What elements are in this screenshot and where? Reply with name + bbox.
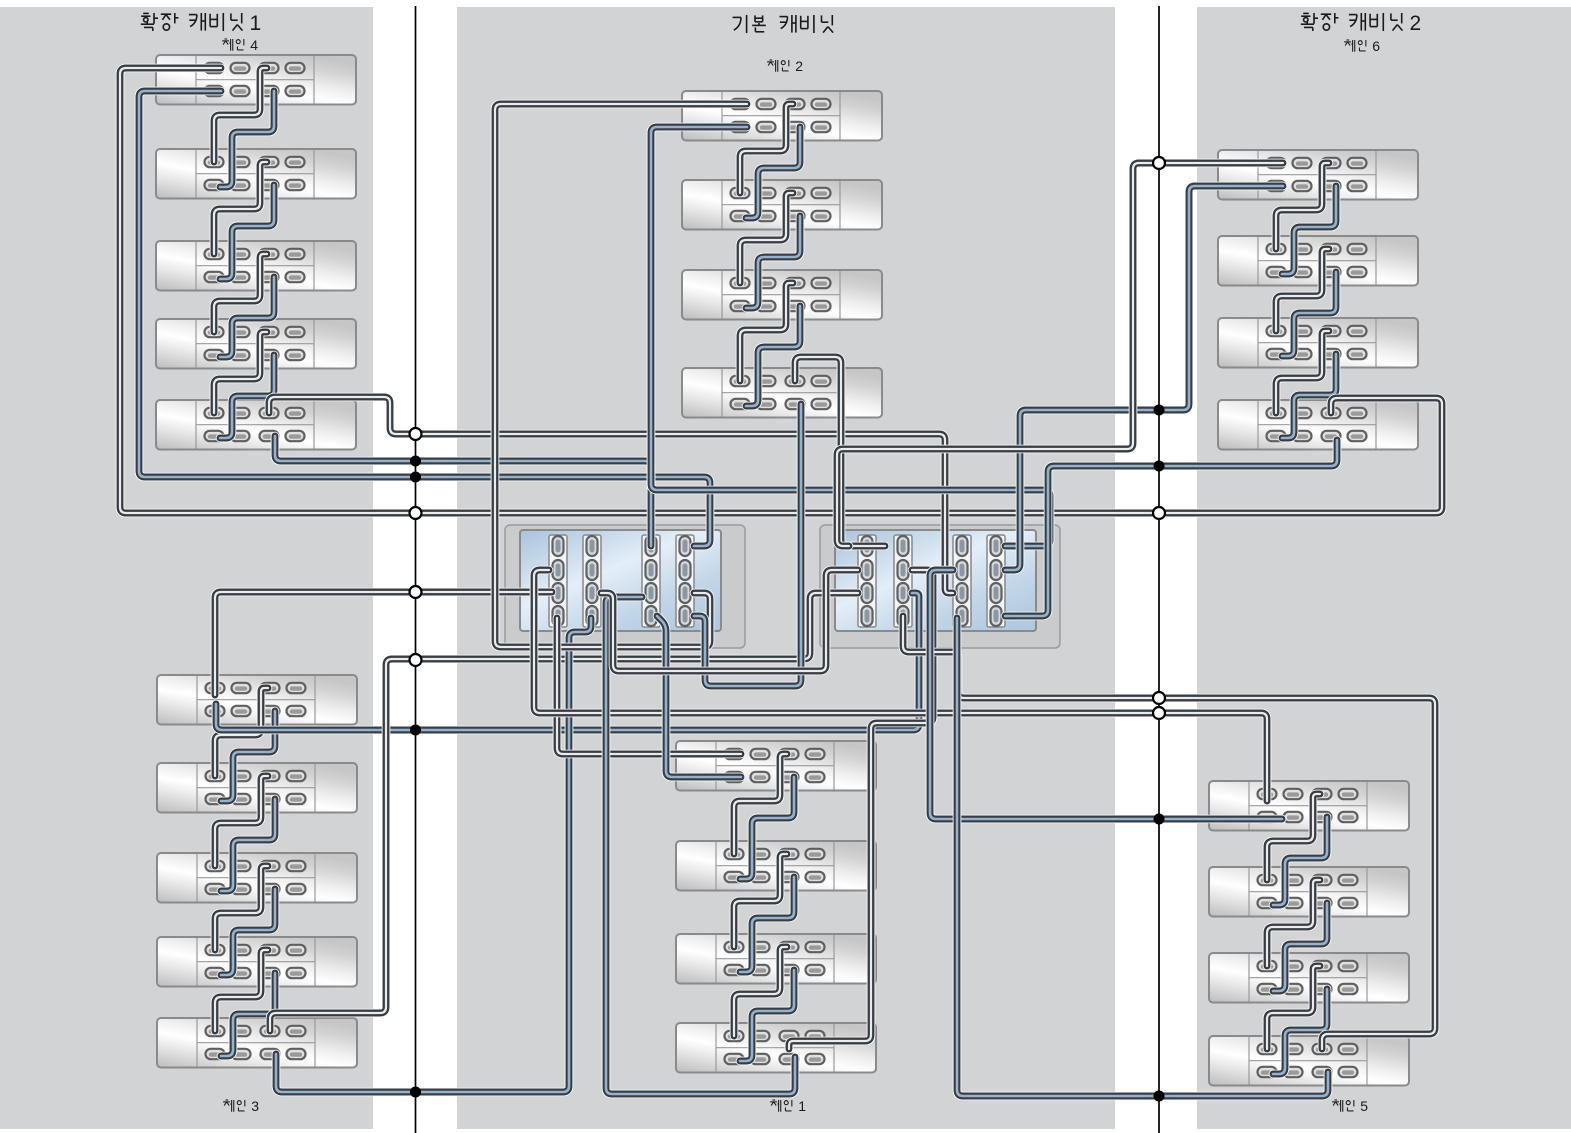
disk shelf c2 shelf2 — [682, 180, 882, 230]
label: chain 3 — [223, 1098, 259, 1114]
wire L21 ctrl2-s2p4 to c5s4-top-p2 — [903, 616, 1435, 1049]
wire L18 c6s1-bot-p0 to ctrl2-s4p2 — [1005, 186, 1283, 570]
disk shelf c5 shelf2 — [1209, 867, 1409, 917]
wire L4 c4s5-bot-p2 to ctrl1-s3p1 — [275, 436, 651, 546]
wire c2 zig dark 3 — [740, 283, 793, 381]
disk shelf c6 shelf1 — [1218, 150, 1418, 200]
crossing markers left boundary — [410, 428, 422, 1098]
wire c5 zig dark 1 — [1267, 794, 1320, 880]
subtitle: chain 4 — [222, 37, 258, 53]
disk shelf c1 shelf4 — [676, 1023, 876, 1073]
disk shelf c1 shelf1 — [676, 741, 876, 791]
wire c6 zig blue 3 — [1282, 354, 1336, 438]
label: chain 1 — [770, 1098, 806, 1114]
wire c4 zig dark 4 — [214, 332, 267, 413]
disk shelf c4 shelf5 — [156, 400, 356, 450]
wire F2 ctrl2-s1p2 to ctrl1-s2p3 — [601, 570, 858, 671]
disk shelf c2 shelf4 — [682, 368, 882, 418]
wire c6 zig dark 1 — [1276, 163, 1329, 249]
subtitle: chain 2 — [767, 58, 803, 74]
wire c5 zig blue 3 — [1273, 989, 1327, 1074]
disk shelf c2 shelf1 — [682, 91, 882, 141]
label: chain 5 — [1332, 1098, 1368, 1114]
svg-text:1: 1 — [798, 1098, 806, 1114]
crossing markers right boundary — [1153, 157, 1165, 1102]
disk shelf c3 shelf2 — [157, 763, 357, 813]
wire c6 zig blue 1 — [1282, 186, 1336, 274]
disk shelf c5 shelf4 — [1209, 1036, 1409, 1086]
wire c4 zig blue 4 — [220, 355, 274, 438]
wire c2 zig dark 2 — [740, 193, 793, 283]
wire c4 zig dark 2 — [214, 162, 267, 254]
controller 1 body — [520, 530, 721, 631]
wire c6 zig dark 3 — [1276, 331, 1329, 413]
svg-text:5: 5 — [1360, 1098, 1368, 1114]
svg-text:3: 3 — [251, 1098, 259, 1114]
disk shelf c6 shelf2 — [1218, 236, 1418, 286]
wire c3 zig dark 3 — [215, 866, 268, 950]
controller 1 chassis — [505, 525, 745, 648]
svg-text:2: 2 — [795, 58, 803, 74]
wire L24 ctrl2-s3p4 to c5s4-bot-p2 — [957, 618, 1328, 1096]
title: expansion cabinet 1 (hangul) — [141, 12, 261, 35]
wire c1 zig dark 3 — [734, 947, 787, 1036]
wire L19 c6s1-top-p0 to ctrl2-s1p1 — [837, 163, 1283, 546]
wire c5 zig dark 3 — [1267, 966, 1320, 1049]
wire c1 zig dark 2 — [734, 854, 787, 947]
disk shelf c3 shelf1 — [157, 675, 357, 725]
disk shelf c5 shelf1 — [1209, 781, 1409, 831]
controller 2 body — [835, 530, 1036, 631]
wire L14 ctrl1-s1p2 to c5s1-top-p0 — [534, 570, 1267, 801]
wire c2 zig dark 1 — [740, 104, 793, 193]
wire c2 zig blue 1 — [746, 127, 800, 218]
wire c5 zig blue 1 — [1273, 817, 1327, 905]
wire c2 zig blue 3 — [746, 306, 800, 406]
wire c6 zig dark 2 — [1276, 249, 1329, 331]
wire L16b ctrl1-s3p4 to c1s1-bot-p0 — [657, 616, 741, 777]
wire c4 zig blue 1 — [220, 91, 274, 187]
disk shelf c6 shelf4 — [1218, 400, 1418, 450]
disk shelf c1 shelf2 — [676, 841, 876, 891]
disk shelf c3 shelf5 — [157, 1018, 357, 1068]
disk shelf c4 shelf1 — [156, 55, 356, 105]
wire L1 c4s1-top-p0 to c6s4-top-p2 — [120, 68, 1442, 513]
wire c3 zig blue 2 — [221, 799, 275, 891]
wire L16 c1s4-bot-p2 to ctrl1-s3p3 — [606, 597, 795, 1094]
wire c1 zig blue 2 — [740, 877, 794, 972]
wire c2 zig blue 2 — [746, 216, 800, 308]
wire c5 zig blue 2 — [1273, 903, 1327, 991]
wire c4 zig blue 2 — [220, 185, 274, 279]
title: expansion cabinet 2 (hangul) — [1301, 12, 1421, 35]
wire L15 ctrl2-s2p2 to c1s4-top-p2 — [789, 570, 933, 1049]
wire L8 c3s5-bot-p2 to ctrl1-s2p4 — [276, 618, 591, 1092]
wire c3 zig blue 4 — [221, 973, 275, 1056]
title: base cabinet (hangul) — [733, 15, 834, 33]
disk shelf c2 shelf3 — [682, 270, 882, 320]
wire L11 c2s4-top-p2 to ctrl2-s2p1 — [795, 357, 885, 546]
wire c3 zig dark 1 — [215, 688, 268, 776]
wire c1 zig blue 1 — [740, 777, 794, 879]
wire c3 zig dark 2 — [215, 776, 268, 866]
disk shelf c3 shelf4 — [157, 937, 357, 987]
disk shelf c1 shelf3 — [676, 934, 876, 984]
subtitle: chain 6 — [1344, 38, 1380, 54]
wire L3 c4s5-top-p2 to ctrl2-s3p3 — [269, 397, 953, 593]
wire c1 zig blue 3 — [740, 970, 794, 1061]
wire L6 c3s1-bot-p0 to ctrl2-s2p3 — [216, 593, 919, 730]
cabinet panel: base cabinet — [457, 7, 1115, 1129]
wire c4 zig blue 3 — [220, 277, 274, 357]
wire c3 zig blue 3 — [221, 889, 275, 975]
wire c4 zig dark 3 — [214, 254, 267, 332]
wire c1 zig dark 1 — [734, 754, 787, 854]
rack boundary line left — [415, 6, 417, 1133]
wire L7 c3s5-top-p2 to ctrl2-s1p3 — [270, 593, 858, 1031]
disk shelf c3 shelf3 — [157, 853, 357, 903]
svg-text:1: 1 — [250, 12, 262, 35]
disk shelf c6 shelf3 — [1218, 318, 1418, 368]
rack boundary line right — [1158, 6, 1160, 1133]
wire c4 zig dark 1 — [214, 68, 267, 162]
disk shelf c4 shelf3 — [156, 241, 356, 291]
wire L20 c6s4-bot-p2 to ctrl2-s4p4 — [1005, 440, 1337, 616]
wire c6 zig blue 2 — [1282, 272, 1336, 356]
svg-text:2: 2 — [1410, 12, 1422, 35]
wire L5 c3s1-top-p0 to ctrl1-s1p3 — [215, 592, 552, 695]
wire L2 c4s1-bot-p0 to ctrl1-s4p1 — [139, 91, 710, 546]
cabinet panel: expansion cabinet 1 — [0, 7, 373, 1129]
wire c5 zig dark 2 — [1267, 880, 1320, 966]
wire L12 c2s4-bot-p2 to ctrl1-s4p4 — [694, 404, 801, 686]
wire L10 c2s1-bot-p0 to ctrl2-s4p1 — [651, 127, 1050, 546]
wire c3 zig blue 1 — [221, 711, 275, 801]
controller 2 chassis — [820, 525, 1060, 648]
disk shelf c4 shelf2 — [156, 149, 356, 199]
disk shelf c4 shelf4 — [156, 319, 356, 369]
wire L9 c2s1-top-p0 to ctrl1-s4p3 — [495, 104, 747, 647]
wire c3 zig dark 4 — [215, 950, 268, 1031]
svg-text:6: 6 — [1372, 38, 1380, 54]
svg-text:4: 4 — [250, 37, 258, 53]
wire L13 c1s1-top-p0 to ctrl1-s1p4 — [557, 618, 741, 754]
cabinet panel: expansion cabinet 2 — [1197, 7, 1571, 1129]
disk shelf c5 shelf3 — [1209, 953, 1409, 1003]
wire L23 ctrl2-s3p2 to c5s1-bot-p0 — [930, 570, 1282, 819]
